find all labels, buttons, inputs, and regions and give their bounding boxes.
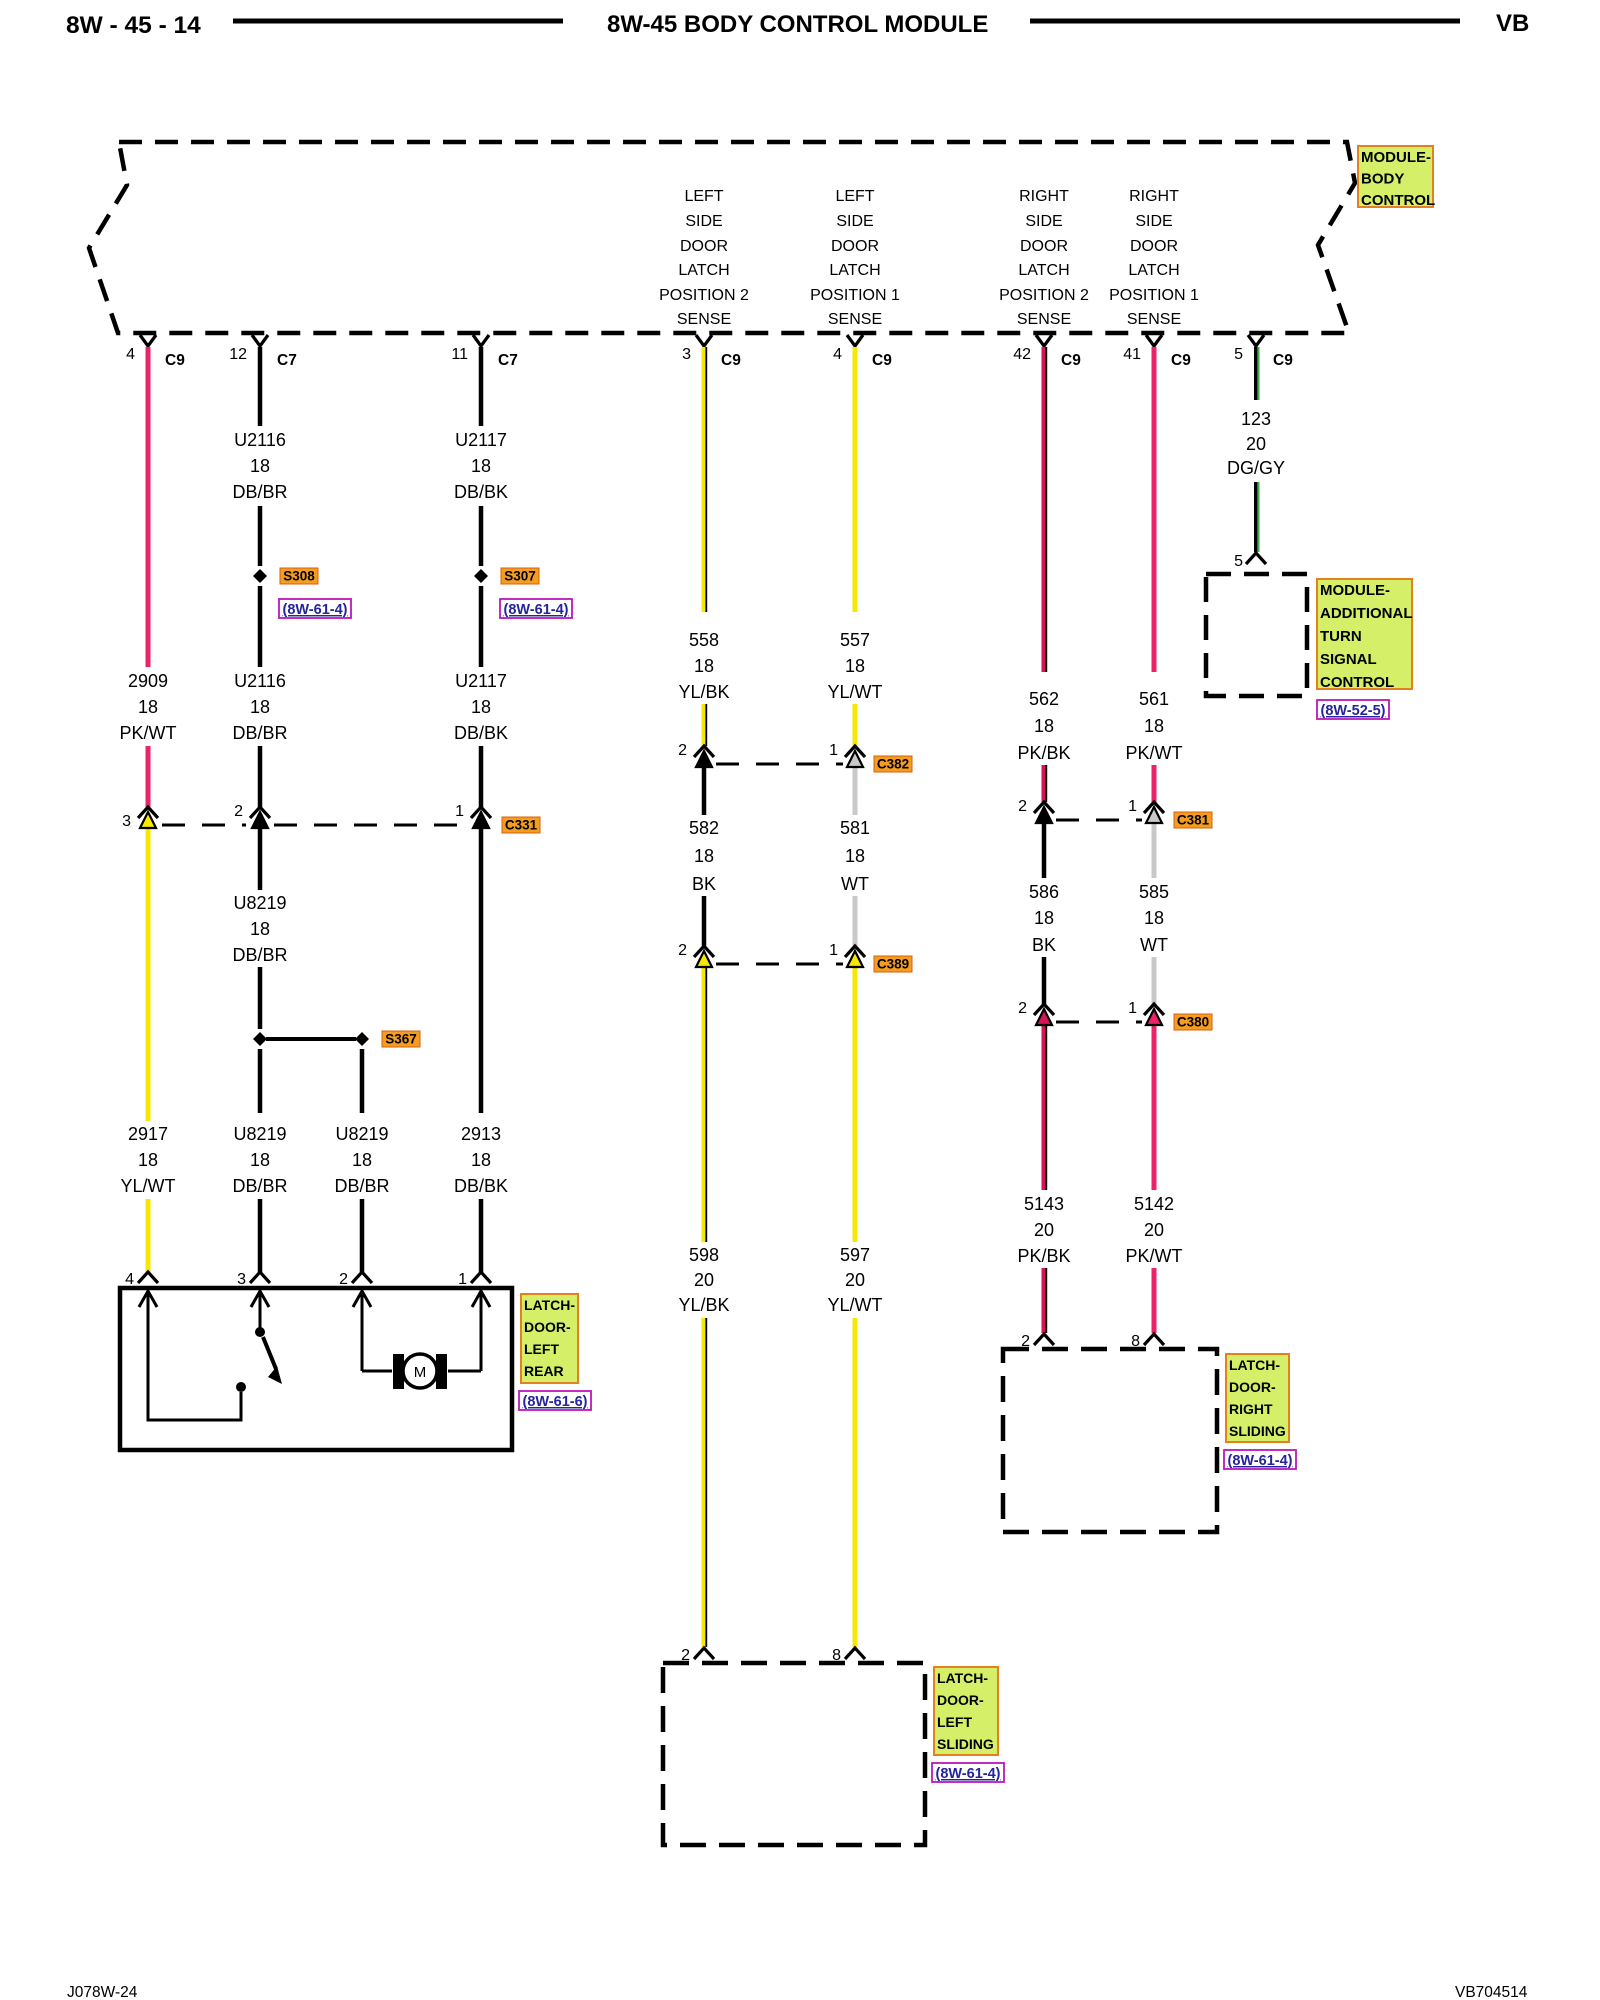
svg-text:DB/BK: DB/BK (454, 1176, 508, 1196)
svg-text:C9: C9 (872, 352, 892, 369)
svg-text:RIGHT: RIGHT (1019, 188, 1069, 205)
wire 582 18 BK - C382 pin 2 to C389 pin 2 (689, 762, 719, 946)
svg-text:8W - 45 - 14: 8W - 45 - 14 (66, 12, 201, 39)
svg-text:LATCH-: LATCH- (524, 1297, 575, 1313)
connector pin 5 (turn signal module) (1234, 553, 1266, 570)
svg-text:U8219: U8219 (335, 1124, 388, 1144)
svg-text:YL/WT: YL/WT (120, 1176, 175, 1196)
svg-text:(8W-61-4): (8W-61-4) (1228, 1453, 1293, 1469)
svg-text:1: 1 (458, 1271, 467, 1288)
wire U2117 18 DB/BK - BCM C7 pin 11 to splice S307 (454, 347, 508, 566)
in-line connector C381 (pins 2,1) (1018, 798, 1212, 828)
svg-text:C7: C7 (277, 352, 297, 369)
svg-text:C380: C380 (1177, 1015, 1209, 1030)
svg-text:18: 18 (1034, 716, 1054, 736)
svg-text:U2116: U2116 (234, 430, 286, 450)
right sliding latch pin 8 connector (1131, 1333, 1164, 1350)
svg-text:(8W-61-6): (8W-61-6) (523, 1394, 588, 1410)
svg-text:U2117: U2117 (455, 671, 507, 691)
svg-text:582: 582 (689, 818, 719, 838)
svg-text:C9: C9 (721, 352, 741, 369)
connector C9 pin 41 (BCM) (1123, 335, 1191, 369)
svg-text:42: 42 (1013, 346, 1031, 363)
motor M (latch power motor) (362, 1291, 481, 1389)
svg-text:C382: C382 (877, 757, 909, 772)
svg-text:LEFT: LEFT (684, 188, 723, 205)
svg-text:DB/BR: DB/BR (232, 1176, 287, 1196)
wire 585 18 WT - C381 pin 1 to C380 pin 1 (1139, 818, 1169, 1004)
svg-text:DOOR-: DOOR- (937, 1692, 984, 1708)
svg-text:18: 18 (1144, 908, 1164, 928)
svg-text:DB/BR: DB/BR (334, 1176, 389, 1196)
svg-text:PK/WT: PK/WT (1126, 743, 1183, 763)
connector C9 pin 5 (BCM) (1234, 335, 1293, 369)
svg-text:MODULE-: MODULE- (1320, 582, 1390, 599)
svg-text:4: 4 (126, 346, 135, 363)
link (8W-61-4) for S307 (500, 599, 572, 618)
link (8W-52-5) (1317, 700, 1389, 719)
svg-text:2: 2 (339, 1271, 348, 1288)
svg-text:DB/BK: DB/BK (454, 482, 508, 502)
svg-text:WT: WT (1140, 935, 1168, 955)
latch pin 2 connector (339, 1271, 372, 1307)
svg-text:18: 18 (250, 456, 270, 476)
net label: RIGHT SIDE DOOR LATCH POSITION 1 SENSE (1109, 188, 1199, 328)
svg-text:561: 561 (1139, 689, 1169, 709)
wire U8219 18 DB/BR - C331 pin 2 to splice S367 (232, 827, 287, 1029)
net label: LEFT SIDE DOOR LATCH POSITION 1 SENSE (810, 188, 900, 328)
svg-text:4: 4 (833, 346, 842, 363)
svg-text:LATCH: LATCH (829, 262, 880, 279)
label: LATCH-DOOR-LEFT SLIDING (934, 1667, 998, 1755)
svg-text:RIGHT: RIGHT (1229, 1401, 1273, 1417)
svg-text:LATCH: LATCH (1128, 262, 1179, 279)
svg-text:18: 18 (1144, 716, 1164, 736)
svg-text:DOOR: DOOR (680, 238, 728, 255)
svg-text:4: 4 (125, 1271, 134, 1288)
svg-text:DOOR: DOOR (831, 238, 879, 255)
svg-text:3: 3 (237, 1271, 246, 1288)
svg-text:5142: 5142 (1134, 1194, 1174, 1214)
svg-text:U2117: U2117 (455, 430, 507, 450)
svg-text:REAR: REAR (524, 1363, 564, 1379)
svg-text:(8W-61-4): (8W-61-4) (283, 602, 348, 618)
connector C7 pin 11 (BCM) (451, 335, 517, 369)
svg-text:CONTROL: CONTROL (1361, 192, 1435, 209)
left sliding latch pin 2 connector (681, 1647, 714, 1664)
svg-text:DOOR-: DOOR- (524, 1319, 571, 1335)
svg-text:3: 3 (122, 813, 131, 830)
svg-text:BK: BK (1032, 935, 1056, 955)
label: MODULE-ADDITIONAL TURN SIGNAL CONTROL (1317, 579, 1413, 691)
label: LATCH-DOOR-RIGHT SLIDING (1226, 1354, 1289, 1442)
svg-text:20: 20 (694, 1270, 714, 1290)
right sliding latch pin 2 connector (1021, 1333, 1054, 1350)
switch: latch position sense (blade from pin 3) (255, 1291, 282, 1384)
wire 557 18 YL/WT - BCM C9 pin 4 to C382 pin 1 (827, 347, 882, 746)
svg-text:585: 585 (1139, 882, 1169, 902)
svg-text:586: 586 (1029, 882, 1059, 902)
latch pin 3 connector (237, 1271, 270, 1307)
svg-text:SENSE: SENSE (1017, 311, 1071, 328)
svg-text:SENSE: SENSE (677, 311, 731, 328)
svg-text:2913: 2913 (461, 1124, 501, 1144)
connector C9 pin 42 (BCM) (1013, 335, 1081, 369)
svg-text:18: 18 (250, 697, 270, 717)
svg-text:SENSE: SENSE (828, 311, 882, 328)
svg-text:C389: C389 (877, 957, 909, 972)
svg-text:MODULE-: MODULE- (1361, 149, 1431, 166)
svg-text:1: 1 (1128, 1000, 1137, 1017)
in-line connector C382 (pins 2,1) (678, 742, 912, 772)
svg-text:POSITION 2: POSITION 2 (659, 287, 749, 304)
svg-text:LEFT: LEFT (524, 1341, 559, 1357)
wire 2917 18 YL/WT - C331 pin 3 to latch pin 4 (120, 827, 175, 1272)
svg-text:DB/BK: DB/BK (454, 723, 508, 743)
page header (66, 10, 1529, 39)
wire U2116 18 DB/BR - S308 to C331 pin 2 (232, 586, 287, 807)
link (8W-61-4) right sliding (1224, 1450, 1296, 1469)
wire 2909 18 PK/WT - BCM C9 pin 4 to C331 pin 3 (120, 347, 177, 807)
svg-text:DB/BR: DB/BR (232, 945, 287, 965)
svg-text:2: 2 (234, 803, 243, 820)
svg-text:123: 123 (1241, 409, 1271, 429)
svg-text:S307: S307 (504, 569, 536, 584)
wire U2117 18 DB/BK - S307 to C331 pin 1 (454, 586, 508, 807)
svg-text:598: 598 (689, 1245, 719, 1265)
svg-text:YL/BK: YL/BK (678, 1295, 729, 1315)
svg-text:18: 18 (694, 656, 714, 676)
svg-text:BODY: BODY (1361, 171, 1404, 188)
wire 5143 20 PK/BK - C380 pin 2 to right sliding latch pin 2 (1017, 1020, 1070, 1333)
svg-text:(8W-61-4): (8W-61-4) (504, 602, 569, 618)
latch pin 4 connector (125, 1271, 158, 1307)
svg-text:581: 581 (840, 818, 870, 838)
in-line connector C380 (pins 2,1) (1018, 1000, 1212, 1030)
left sliding latch pin 8 connector (832, 1647, 865, 1664)
svg-text:ADDITIONAL: ADDITIONAL (1320, 605, 1413, 622)
svg-text:3: 3 (682, 346, 691, 363)
svg-text:SIDE: SIDE (1025, 213, 1062, 230)
svg-text:18: 18 (471, 456, 491, 476)
svg-text:20: 20 (1246, 434, 1266, 454)
svg-text:PK/WT: PK/WT (120, 723, 177, 743)
splice S308 (253, 568, 318, 584)
net label: LEFT SIDE DOOR LATCH POSITION 2 SENSE (659, 188, 749, 328)
in-line connector C389 (pins 2,1) (678, 942, 912, 972)
svg-text:2917: 2917 (128, 1124, 168, 1144)
svg-text:18: 18 (250, 1150, 270, 1170)
svg-text:C9: C9 (1273, 352, 1293, 369)
svg-text:C7: C7 (498, 352, 518, 369)
svg-text:PK/BK: PK/BK (1017, 743, 1070, 763)
svg-text:U8219: U8219 (233, 1124, 286, 1144)
svg-text:20: 20 (1144, 1220, 1164, 1240)
svg-text:POSITION 2: POSITION 2 (999, 287, 1089, 304)
wire 5142 20 PK/WT - C380 pin 1 to right sliding latch pin 8 (1126, 1020, 1183, 1333)
wire 598 20 YL/BK - C389 pin 2 to left sliding latch pin 2 (678, 966, 729, 1647)
latch assembly: LATCH-DOOR-LEFT SLIDING (dashed box) (663, 1663, 925, 1845)
svg-text:RIGHT: RIGHT (1129, 188, 1179, 205)
svg-text:8W-45 BODY CONTROL MODULE: 8W-45 BODY CONTROL MODULE (607, 11, 988, 38)
svg-text:11: 11 (451, 346, 468, 363)
svg-text:J078W-24: J078W-24 (67, 1984, 138, 2000)
svg-text:2: 2 (1018, 1000, 1027, 1017)
connector C9 pin 4 (BCM) (126, 335, 185, 369)
svg-text:20: 20 (1034, 1220, 1054, 1240)
label: MODULE-BODY CONTROL (1358, 146, 1435, 209)
svg-text:562: 562 (1029, 689, 1059, 709)
svg-text:LATCH: LATCH (678, 262, 729, 279)
svg-text:LEFT: LEFT (937, 1714, 972, 1730)
svg-text:C9: C9 (165, 352, 185, 369)
svg-text:18: 18 (138, 697, 158, 717)
svg-text:LATCH-: LATCH- (1229, 1357, 1280, 1373)
svg-text:U8219: U8219 (233, 893, 286, 913)
wire 586 18 BK - C381 pin 2 to C380 pin 2 (1029, 818, 1059, 1004)
svg-text:SIGNAL: SIGNAL (1320, 651, 1377, 668)
wire 2913 18 DB/BK - C331 pin 1 to latch pin 1 (454, 827, 508, 1272)
svg-text:SLIDING: SLIDING (1229, 1423, 1286, 1439)
svg-text:(8W-61-4): (8W-61-4) (936, 1766, 1001, 1782)
connector C7 pin 12 (BCM) (229, 335, 297, 369)
svg-text:LATCH: LATCH (1018, 262, 1069, 279)
net label: RIGHT SIDE DOOR LATCH POSITION 2 SENSE (999, 188, 1089, 328)
svg-text:5: 5 (1234, 346, 1243, 363)
svg-text:18: 18 (694, 846, 714, 866)
wire 558 18 YL/BK - BCM C9 pin 3 to C382 pin 2 (678, 347, 729, 746)
wire 581 18 WT - C382 pin 1 to C389 pin 1 (840, 762, 870, 946)
svg-text:20: 20 (845, 1270, 865, 1290)
svg-text:DOOR: DOOR (1130, 238, 1178, 255)
in-line connector C331 (pins 3,2,1) (122, 803, 540, 833)
wire (internal) pin 4 to switch contact (148, 1291, 246, 1420)
svg-text:SIDE: SIDE (1135, 213, 1172, 230)
svg-text:(8W-52-5): (8W-52-5) (1321, 703, 1386, 719)
module: additional turn signal control (dashed box) (1206, 574, 1307, 696)
splice S367 (253, 1031, 420, 1047)
module: body control module (dashed outline with torn edges) (89, 142, 1355, 333)
latch pin 1 connector (458, 1271, 491, 1307)
svg-text:TURN: TURN (1320, 628, 1362, 645)
wire U8219 18 DB/BR (branch) - S367 to latch pin 2 (334, 1049, 389, 1272)
svg-text:18: 18 (845, 846, 865, 866)
svg-text:12: 12 (229, 346, 247, 363)
svg-text:YL/WT: YL/WT (827, 682, 882, 702)
svg-text:18: 18 (471, 1150, 491, 1170)
svg-text:PK/BK: PK/BK (1017, 1246, 1070, 1266)
wire 562 18 PK/BK - BCM C9 pin 42 to C381 pin 2 (1017, 347, 1070, 802)
svg-text:1: 1 (1128, 798, 1137, 815)
svg-text:1: 1 (829, 942, 838, 959)
svg-text:WT: WT (841, 874, 869, 894)
wire 561 18 PK/WT - BCM C9 pin 41 to C381 pin 1 (1126, 347, 1183, 802)
svg-text:YL/BK: YL/BK (678, 682, 729, 702)
wire U2116 18 DB/BR - BCM C7 pin 12 to splice S308 (232, 347, 287, 566)
svg-text:C9: C9 (1171, 352, 1191, 369)
svg-text:18: 18 (1034, 908, 1054, 928)
wire U8219 18 DB/BR - S367 to latch pin 3 (232, 1049, 287, 1272)
connector C9 pin 3 (BCM) (682, 335, 741, 369)
svg-text:BK: BK (692, 874, 716, 894)
svg-text:LEFT: LEFT (835, 188, 874, 205)
svg-text:SLIDING: SLIDING (937, 1736, 994, 1752)
svg-text:1: 1 (829, 742, 838, 759)
label: LATCH-DOOR-LEFT REAR (521, 1294, 578, 1383)
svg-text:597: 597 (840, 1245, 870, 1265)
svg-text:DB/BR: DB/BR (232, 723, 287, 743)
svg-text:DB/BR: DB/BR (232, 482, 287, 502)
wire 597 20 YL/WT - C389 pin 1 to left sliding latch pin 8 (827, 966, 882, 1647)
svg-text:558: 558 (689, 630, 719, 650)
svg-text:2: 2 (1018, 798, 1027, 815)
page footer (67, 1984, 1528, 2000)
svg-text:18: 18 (471, 697, 491, 717)
svg-text:18: 18 (845, 656, 865, 676)
svg-text:SENSE: SENSE (1127, 311, 1181, 328)
latch assembly: LATCH-DOOR-RIGHT SLIDING (dashed box) (1003, 1349, 1217, 1532)
svg-text:18: 18 (352, 1150, 372, 1170)
wire 123 20 DG/GY - BCM C9 pin 5 to turn signal module pin 5 (1227, 347, 1285, 552)
svg-text:1: 1 (455, 803, 464, 820)
svg-text:C331: C331 (505, 818, 538, 833)
svg-text:SIDE: SIDE (836, 213, 873, 230)
connector C9 pin 4 (BCM) (833, 335, 892, 369)
splice S307 (474, 568, 539, 584)
svg-text:SIDE: SIDE (685, 213, 722, 230)
link (8W-61-4) for S308 (279, 599, 351, 618)
svg-text:18: 18 (250, 919, 270, 939)
svg-text:VB: VB (1496, 10, 1529, 37)
svg-text:PK/WT: PK/WT (1126, 1246, 1183, 1266)
svg-text:2: 2 (678, 742, 687, 759)
latch assembly: LATCH-DOOR-LEFT REAR (solid box) (120, 1288, 512, 1450)
svg-text:U2116: U2116 (234, 671, 286, 691)
svg-text:CONTROL: CONTROL (1320, 674, 1394, 691)
svg-text:C9: C9 (1061, 352, 1081, 369)
svg-text:C381: C381 (1177, 813, 1210, 828)
svg-text:POSITION 1: POSITION 1 (1109, 287, 1199, 304)
svg-text:18: 18 (138, 1150, 158, 1170)
svg-text:M: M (414, 1364, 427, 1381)
svg-text:2: 2 (678, 942, 687, 959)
svg-text:41: 41 (1123, 346, 1141, 363)
svg-text:5143: 5143 (1024, 1194, 1064, 1214)
svg-text:DOOR-: DOOR- (1229, 1379, 1276, 1395)
svg-text:LATCH-: LATCH- (937, 1670, 988, 1686)
svg-text:S367: S367 (385, 1032, 417, 1047)
link (8W-61-6) (519, 1391, 591, 1410)
svg-text:VB704514: VB704514 (1455, 1984, 1528, 2000)
svg-text:DOOR: DOOR (1020, 238, 1068, 255)
svg-text:2909: 2909 (128, 671, 168, 691)
svg-text:YL/WT: YL/WT (827, 1295, 882, 1315)
svg-text:S308: S308 (283, 569, 315, 584)
svg-text:DG/GY: DG/GY (1227, 458, 1285, 478)
svg-text:557: 557 (840, 630, 870, 650)
svg-text:5: 5 (1234, 553, 1243, 570)
link (8W-61-4) left sliding (932, 1763, 1004, 1782)
svg-text:POSITION 1: POSITION 1 (810, 287, 900, 304)
